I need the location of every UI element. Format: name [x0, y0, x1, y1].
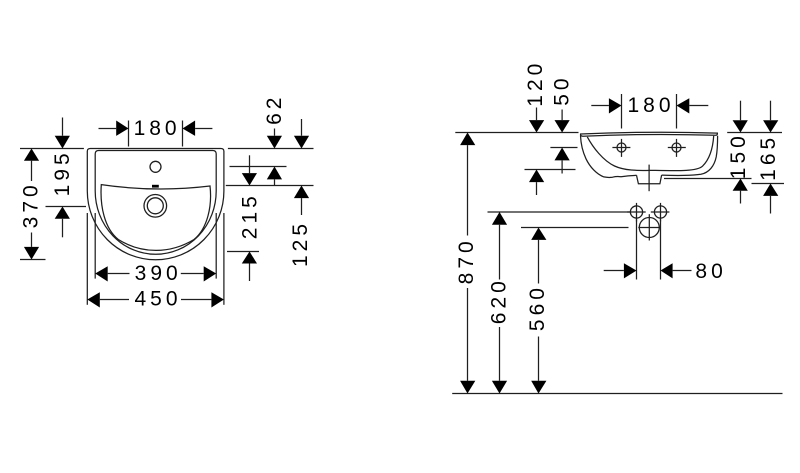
drain connection [638, 214, 660, 240]
reference line: 560 drain level [521, 227, 629, 229]
extension line: faucet center right [230, 166, 287, 168]
side view bottom rear [662, 136, 718, 176]
extension line: drain center left [46, 206, 87, 208]
svg-text:150: 150 [727, 132, 750, 179]
drain inner circle [147, 198, 163, 214]
mounting hole right [668, 139, 686, 157]
reference line: top edge [455, 132, 578, 134]
dimension 180 (side view) [591, 98, 708, 113]
inner bowl outline [101, 185, 211, 251]
extension line: 80 right [660, 220, 662, 280]
svg-text:450: 450 [134, 287, 181, 310]
dimension 195 [55, 118, 70, 238]
extension line: 180 left [128, 121, 130, 147]
dimension 80 [604, 263, 692, 278]
extension line: 80 left [636, 220, 638, 280]
washbasin front view inner contour [95, 151, 216, 255]
svg-text:120: 120 [524, 60, 547, 107]
dimension 180 (front view) [99, 121, 213, 136]
svg-text:370: 370 [20, 181, 43, 228]
tab center axis [648, 165, 650, 192]
tick: 165 bottom [752, 183, 785, 185]
tick: bowl bottom right [227, 251, 259, 253]
extension line: basin top left [20, 148, 84, 150]
drain tab [637, 175, 662, 184]
dimension 50 [555, 110, 570, 174]
svg-text:180: 180 [134, 117, 181, 140]
svg-text:180: 180 [627, 94, 674, 117]
dimension 450 [87, 292, 224, 307]
dimension 150 [733, 101, 748, 204]
extension line: 450 left [86, 213, 88, 305]
dimension 870 [460, 133, 475, 394]
dimension 390 [95, 266, 216, 281]
tick: 50 bottom [550, 147, 577, 149]
svg-text:390: 390 [135, 262, 182, 285]
extension line: 180 right-view right [676, 94, 678, 129]
svg-text:80: 80 [695, 260, 726, 283]
supply connection right [651, 203, 670, 222]
dimension 62 [267, 129, 282, 186]
side view front profile [581, 136, 637, 178]
svg-text:125: 125 [289, 220, 312, 267]
side view inner bowl curve [587, 136, 713, 171]
washbasin front view outer contour [87, 149, 224, 260]
tick: 120 bottom [525, 169, 576, 171]
extension line: 180 right [182, 121, 184, 147]
drain outer circle [144, 195, 167, 218]
svg-text:50: 50 [551, 74, 574, 105]
dimension 620 [492, 212, 507, 394]
svg-text:62: 62 [263, 94, 286, 125]
tick: top right [727, 132, 782, 134]
svg-text:870: 870 [455, 237, 478, 284]
mounting hole left [612, 139, 630, 157]
svg-text:215: 215 [239, 192, 262, 239]
extension line: basin top right [228, 148, 314, 150]
svg-text:620: 620 [487, 277, 510, 324]
side view rim band [581, 132, 718, 136]
extension line: 180 right-view left [621, 94, 623, 129]
svg-text:560: 560 [526, 284, 549, 331]
dimension 215 [242, 155, 257, 281]
svg-text:165: 165 [757, 134, 780, 181]
extension line: 390 right [215, 213, 217, 279]
dimension 370 [24, 149, 39, 260]
reference line: 620 supply level [488, 211, 631, 213]
floor line [452, 393, 782, 395]
tick: 370 bottom [20, 259, 46, 261]
dimension 560 [531, 228, 546, 394]
extension line: 450 right [223, 213, 225, 305]
faucet hole [150, 161, 161, 172]
extension line: 390 left [94, 213, 96, 279]
svg-text:195: 195 [51, 149, 74, 196]
supply connection left [627, 203, 646, 222]
dimension 165 [763, 101, 778, 214]
dimension 120 [529, 108, 544, 196]
tick: 150 bottom [664, 178, 752, 180]
overflow dash [152, 185, 159, 188]
extension line: bowl rim right [226, 185, 314, 187]
dimension 125 [294, 119, 309, 215]
